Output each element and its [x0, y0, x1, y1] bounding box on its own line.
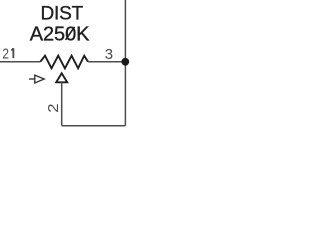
svg-text:2: 2 — [2, 45, 9, 62]
wiper arrowhead triangle — [56, 73, 67, 82]
svg-text:3: 3 — [105, 46, 113, 63]
svg-text:DIST: DIST — [41, 3, 84, 24]
pin number 21 digit 1 — [12, 48, 14, 58]
resistor body R zigzag — [40, 56, 88, 69]
wire wiper lead down from pin 2 — [61, 82, 63, 125]
wire left lead to pin 1 — [0, 61, 40, 63]
wire bottom net — [62, 125, 126, 127]
svg-text:2: 2 — [45, 104, 62, 113]
slash of slashed zero in A250K — [66, 27, 75, 40]
svg-text:A250K: A250K — [30, 23, 90, 45]
wiper direction arrow — [29, 75, 44, 83]
wire vertical net on right — [124, 0, 126, 126]
junction dot — [121, 58, 129, 66]
wire right lead pin 3 to junction — [88, 61, 125, 63]
